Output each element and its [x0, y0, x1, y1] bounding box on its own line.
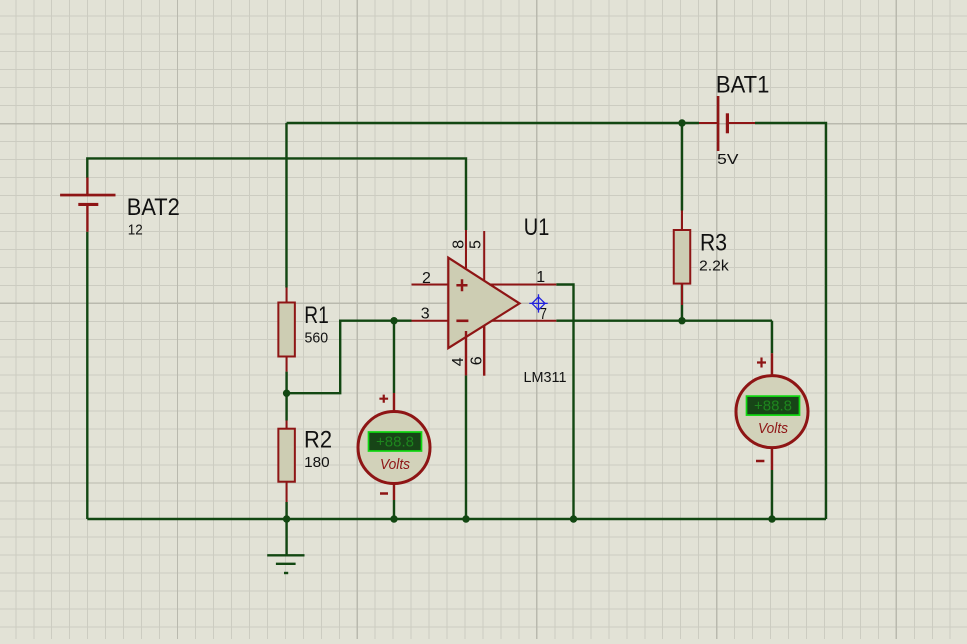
svg-text:3: 3	[421, 306, 430, 323]
battery BAT2 leads	[86, 178, 88, 232]
origin crosshair marker	[529, 294, 547, 312]
op-amp U1 minus mark	[456, 319, 468, 322]
op-amp U1 pin 4 lead	[465, 331, 467, 375]
wire node A to inverting input	[287, 321, 412, 394]
junction dot 5 at (286.6,519)	[283, 515, 290, 522]
svg-text:6: 6	[469, 356, 486, 365]
wire R1 bottom to node	[285, 372, 287, 394]
junction dot 2 at (394,320.7)	[390, 317, 397, 324]
svg-text:BAT1: BAT1	[716, 72, 770, 99]
wire right voltmeter minus to ground rail	[771, 470, 773, 519]
voltmeter VM2 body circle	[736, 376, 808, 448]
junction dot 6 at (394,519)	[390, 515, 397, 522]
wire from top rail down to R1	[285, 123, 287, 288]
op-amp U1 pin 2 lead	[412, 284, 448, 286]
op-amp U1 pin 3 lead	[412, 320, 448, 322]
op-amp U1 plus mark	[456, 279, 467, 291]
svg-text:8: 8	[450, 240, 467, 249]
junction dot 4 at (286.6,393.2)	[283, 390, 290, 397]
op-amp U1 pin 5 lead	[483, 231, 485, 280]
junction dot 9 at (772,519)	[768, 515, 775, 522]
svg-text:4: 4	[450, 357, 467, 366]
svg-text:180: 180	[304, 454, 330, 471]
resistor R1 leads	[286, 288, 288, 372]
wire pin1 to ground rail	[556, 285, 573, 520]
wire bottom ground rail	[87, 518, 826, 520]
junction dot 1 at (682,123)	[678, 119, 685, 126]
svg-text:5V: 5V	[717, 151, 738, 168]
svg-text:LM311: LM311	[524, 369, 567, 386]
op-amp U1 triangle body	[448, 258, 519, 348]
wire to left voltmeter plus	[393, 321, 395, 393]
resistor R1 body	[278, 303, 295, 357]
svg-text:2.2k: 2.2k	[699, 257, 729, 274]
junction dot 7 at (466,519)	[462, 515, 469, 522]
wire pin4 down to ground rail	[465, 375, 467, 519]
voltmeter VM2 minus sign	[756, 460, 764, 463]
wire top VCC rail	[287, 122, 700, 124]
battery BAT2 long plate	[60, 194, 115, 197]
voltmeter VM1 minus sign	[380, 492, 388, 495]
resistor R3 leads	[681, 211, 683, 306]
svg-text:BAT2: BAT2	[127, 194, 180, 221]
op-amp U1 pin 1 lead	[489, 284, 556, 286]
svg-text:U1: U1	[524, 214, 550, 241]
svg-text:+88.8: +88.8	[754, 397, 792, 414]
svg-text:+88.8: +88.8	[376, 433, 414, 450]
svg-text:R1: R1	[304, 302, 329, 329]
svg-text:1: 1	[536, 269, 545, 286]
battery BAT1 leads	[699, 122, 755, 124]
wire node to R2 top	[285, 393, 287, 420]
svg-text:5: 5	[467, 240, 484, 249]
wire output down to right voltmeter plus	[771, 321, 773, 354]
op-amp U1 pin 6 lead	[483, 326, 485, 376]
svg-text:R2: R2	[304, 427, 332, 454]
junction dot 3 at (682,320.7)	[678, 317, 685, 324]
wire R3 bottom to output net	[681, 284, 683, 321]
battery BAT1 long plate	[717, 96, 720, 151]
wire BAT2 positive rail	[87, 158, 466, 230]
ground symbol	[267, 519, 304, 573]
svg-text:Volts: Volts	[758, 420, 788, 437]
voltmeter VM1 leads	[393, 393, 395, 500]
svg-text:7: 7	[540, 306, 547, 323]
resistor R3 body	[674, 230, 691, 284]
wire R3 top from VCC	[681, 123, 683, 211]
voltmeter VM1 body circle	[358, 412, 430, 484]
voltmeter VM1 plus sign	[379, 395, 388, 403]
svg-text:R3: R3	[700, 230, 727, 257]
wire BAT2 negative down to ground rail	[86, 232, 88, 519]
resistor R2 leads	[286, 421, 288, 503]
resistor R2 body	[278, 429, 295, 482]
op-amp U1 pin 7 lead	[492, 320, 556, 322]
wire pin7 output to right	[556, 320, 772, 322]
battery BAT1 short plate	[726, 113, 729, 133]
wire left voltmeter minus to ground rail	[393, 500, 395, 519]
wire R2 bottom to ground rail	[285, 502, 287, 519]
junction dot 8 at (573.5,519)	[570, 515, 577, 522]
svg-text:Volts: Volts	[380, 456, 410, 473]
battery BAT2 short plate	[78, 203, 98, 206]
voltmeter VM2 leads	[771, 353, 773, 470]
voltmeter VM1 LCD display	[369, 432, 422, 451]
svg-text:2: 2	[422, 270, 431, 287]
voltmeter VM2 LCD display	[747, 396, 800, 415]
wire VCC right segment to right rail	[755, 123, 826, 519]
op-amp U1 pin 8 lead	[465, 230, 467, 268]
svg-text:560: 560	[305, 329, 329, 346]
svg-text:12: 12	[128, 222, 143, 239]
voltmeter VM2 plus sign	[757, 358, 766, 368]
